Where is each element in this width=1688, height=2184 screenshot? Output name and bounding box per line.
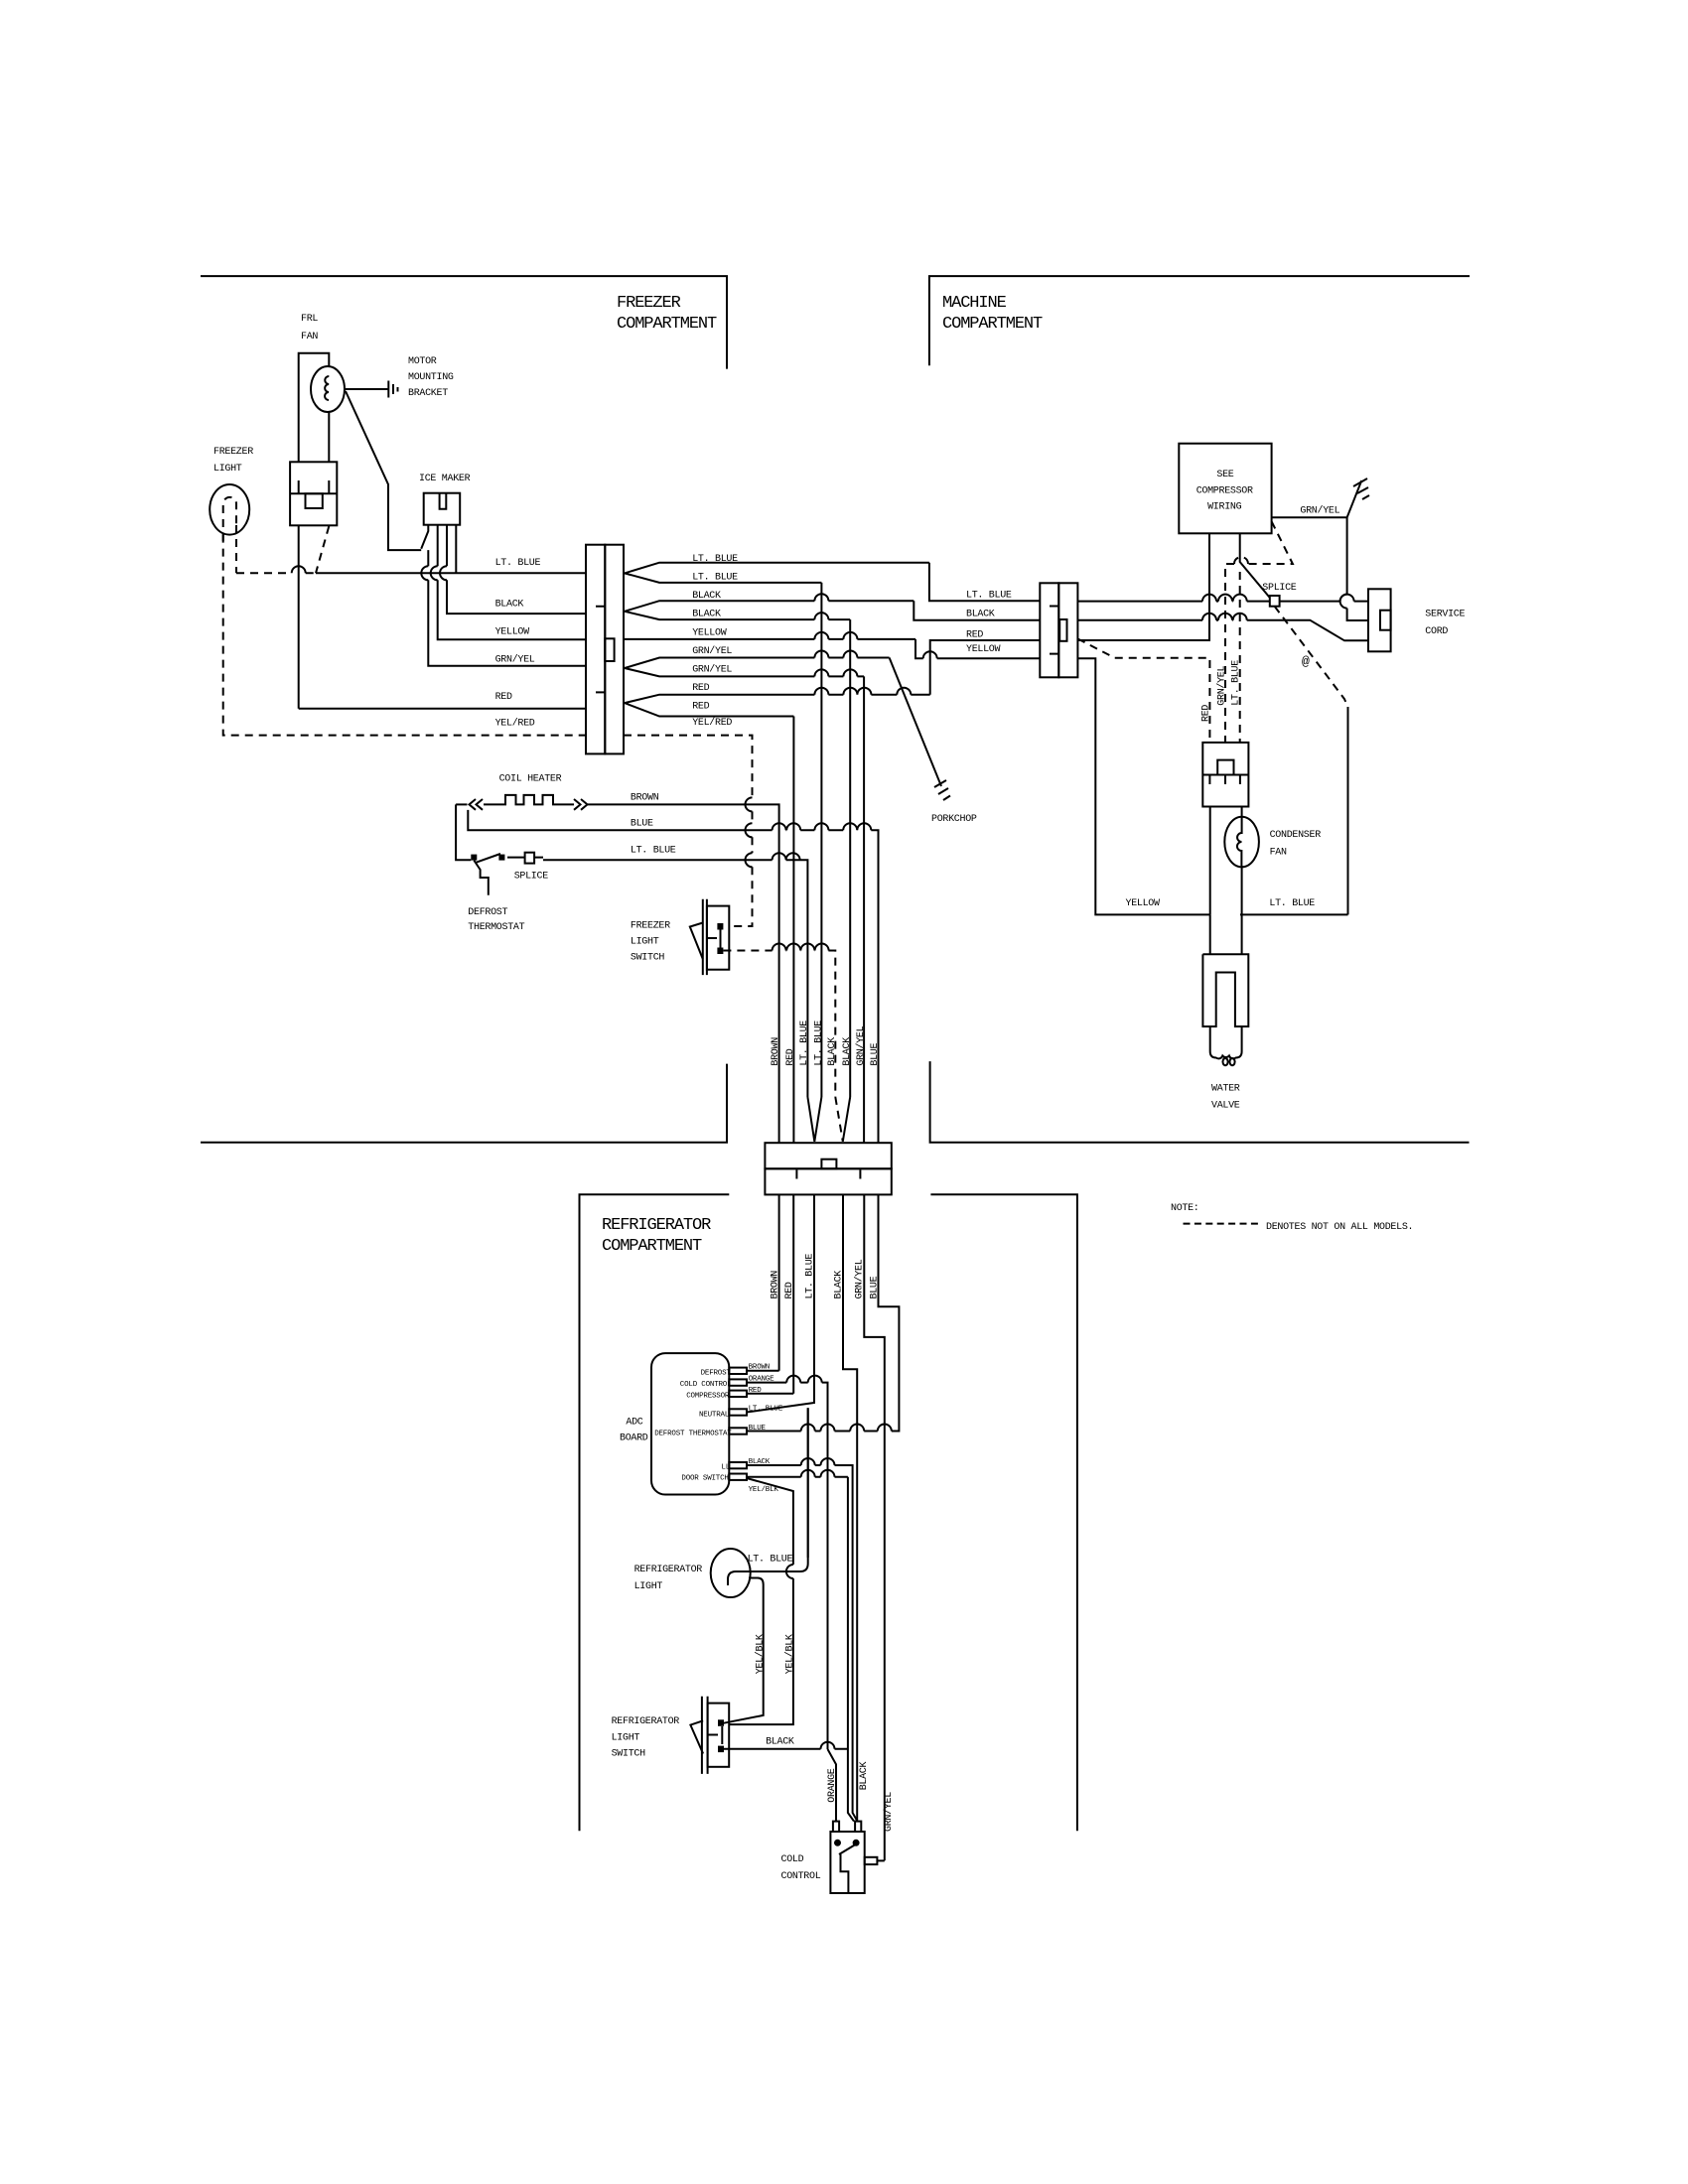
svg-text:ORANGE: ORANGE [827,1768,838,1803]
svg-text:DEFROST: DEFROST [701,1370,732,1378]
svg-text:SWITCH: SWITCH [612,1749,646,1760]
svg-text:CONDENSER: CONDENSER [1270,830,1322,841]
svg-text:BLUE: BLUE [870,1042,881,1065]
svg-text:WATER: WATER [1211,1084,1240,1095]
svg-text:CONTROL: CONTROL [781,1871,821,1882]
svg-text:MOUNTING: MOUNTING [408,372,454,383]
svg-text:NOTE:: NOTE: [1171,1203,1199,1214]
svg-text:LT. BLUE: LT. BLUE [748,1555,793,1566]
svg-text:BRACKET: BRACKET [408,388,448,399]
svg-text:DEFROST: DEFROST [468,907,507,918]
svg-text:NEUTRAL: NEUTRAL [699,1411,730,1419]
svg-text:BLUE: BLUE [870,1276,881,1298]
svg-text:FREEZER: FREEZER [617,294,681,313]
svg-text:GRN/YEL: GRN/YEL [1216,665,1228,705]
svg-text:GRN/YEL: GRN/YEL [1300,505,1339,517]
svg-text:DEFROST THERMOSTAT: DEFROST THERMOSTAT [654,1431,732,1438]
svg-text:GRN/YEL: GRN/YEL [692,645,732,657]
svg-text:YEL/BLK: YEL/BLK [784,1634,796,1674]
svg-text:BLUE: BLUE [749,1425,767,1433]
svg-text:RED: RED [784,1282,795,1298]
svg-text:YELLOW: YELLOW [1126,898,1161,909]
svg-text:LT. BLUE: LT. BLUE [966,591,1012,602]
svg-text:COMPARTMENT: COMPARTMENT [602,1237,702,1256]
svg-text:BLACK: BLACK [859,1761,870,1790]
svg-text:RED: RED [495,692,512,703]
svg-text:GRN/YEL: GRN/YEL [495,654,535,666]
svg-text:BLACK: BLACK [834,1271,845,1299]
svg-text:BLUE: BLUE [631,819,653,830]
svg-text:SPLICE: SPLICE [514,872,549,883]
svg-text:BROWN: BROWN [771,1037,781,1066]
svg-text:COMPRESSOR: COMPRESSOR [686,1392,730,1400]
svg-text:BLACK: BLACK [966,609,995,619]
svg-text:BROWN: BROWN [771,1271,781,1299]
svg-text:@: @ [1302,654,1310,669]
svg-text:YEL/RED: YEL/RED [692,717,732,729]
svg-text:REFRIGERATOR: REFRIGERATOR [602,1216,711,1235]
svg-text:SWITCH: SWITCH [631,953,665,964]
svg-text:FRL: FRL [301,314,318,325]
svg-text:COLD: COLD [781,1854,804,1865]
svg-text:MACHINE: MACHINE [942,294,1007,313]
svg-text:RED: RED [785,1048,796,1065]
svg-text:LT. BLUE: LT. BLUE [1269,898,1315,909]
svg-text:GRN/YEL: GRN/YEL [692,664,732,676]
svg-text:BLACK: BLACK [495,600,524,611]
svg-text:CORD: CORD [1425,626,1448,637]
svg-text:DOOR SWITCH: DOOR SWITCH [681,1475,728,1483]
svg-text:MOTOR: MOTOR [408,356,437,367]
svg-text:YELLOW: YELLOW [692,627,727,638]
svg-text:SERVICE: SERVICE [1425,610,1465,620]
svg-text:THERMOSTAT: THERMOSTAT [468,922,524,933]
svg-text:RED: RED [966,630,983,641]
svg-text:COMPARTMENT: COMPARTMENT [942,315,1043,334]
svg-text:LIGHT: LIGHT [612,1733,640,1744]
svg-text:COLD CONTROL: COLD CONTROL [680,1381,732,1389]
svg-text:BLACK: BLACK [827,1037,838,1066]
svg-text:RED: RED [692,683,709,694]
svg-text:LT. BLUE: LT. BLUE [495,558,541,569]
svg-text:PORKCHOP: PORKCHOP [931,814,977,825]
svg-text:WIRING: WIRING [1207,502,1242,513]
svg-text:LT. BLUE: LT. BLUE [692,572,738,583]
svg-text:FAN: FAN [301,332,318,342]
svg-text:SPLICE: SPLICE [1262,583,1297,594]
svg-text:YEL/BLK: YEL/BLK [749,1486,779,1494]
svg-text:LT. BLUE: LT. BLUE [814,1021,825,1066]
svg-text:FAN: FAN [1270,848,1287,859]
svg-text:LT. BLUE: LT. BLUE [1231,660,1242,706]
svg-text:BLACK: BLACK [766,1737,794,1748]
svg-text:REFRIGERATOR: REFRIGERATOR [612,1716,680,1727]
svg-text:REFRIGERATOR: REFRIGERATOR [634,1565,703,1575]
svg-text:LIGHT: LIGHT [213,464,242,475]
svg-text:LT. BLUE: LT. BLUE [631,846,676,857]
svg-text:BLACK: BLACK [842,1037,853,1066]
svg-text:COMPRESSOR: COMPRESSOR [1196,486,1253,497]
svg-text:ADC: ADC [626,1418,642,1429]
svg-text:GRN/YEL: GRN/YEL [883,1792,895,1832]
svg-text:LT. BLUE: LT. BLUE [799,1021,810,1066]
svg-text:YELLOW: YELLOW [966,644,1001,655]
svg-text:RED: RED [692,702,709,713]
svg-text:DENOTES NOT ON ALL MODELS.: DENOTES NOT ON ALL MODELS. [1266,1222,1413,1233]
svg-text:BLACK: BLACK [692,610,721,620]
svg-text:YEL/BLK: YEL/BLK [755,1634,767,1674]
svg-text:YEL/RED: YEL/RED [495,718,535,730]
svg-text:COMPARTMENT: COMPARTMENT [617,315,717,334]
svg-text:LT. BLUE: LT. BLUE [749,1405,783,1413]
svg-text:SEE: SEE [1216,470,1233,480]
svg-text:GRN/YEL: GRN/YEL [855,1025,867,1065]
svg-text:COIL HEATER: COIL HEATER [499,774,562,785]
svg-text:FREEZER: FREEZER [213,447,253,458]
svg-text:YELLOW: YELLOW [495,627,530,638]
svg-text:LIGHT: LIGHT [631,937,659,948]
svg-text:GRN/YEL: GRN/YEL [854,1259,866,1298]
svg-text:VALVE: VALVE [1211,1101,1240,1112]
svg-text:FREEZER: FREEZER [631,921,670,932]
svg-text:BOARD: BOARD [620,1433,648,1444]
svg-text:LIGHT: LIGHT [634,1581,663,1592]
svg-text:ICE MAKER: ICE MAKER [419,474,471,484]
svg-text:BROWN: BROWN [631,793,659,804]
svg-text:LT. BLUE: LT. BLUE [805,1254,816,1299]
svg-text:RED: RED [1201,705,1212,722]
